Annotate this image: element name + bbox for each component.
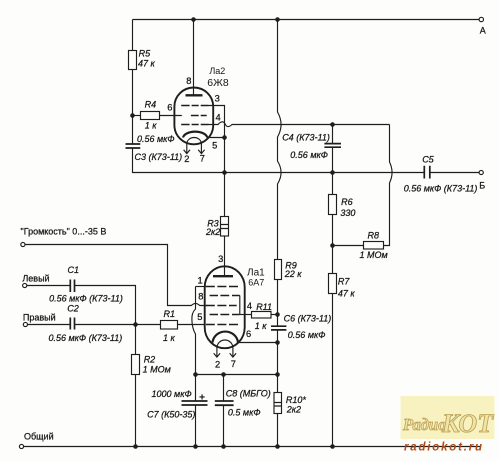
wire bottom rail xyxy=(24,446,481,448)
svg-text:C6 (К73-11): C6 (К73-11) xyxy=(284,313,332,323)
node bottom R2 xyxy=(133,444,138,449)
svg-text:C3 (К73-11): C3 (К73-11) xyxy=(135,152,183,162)
tube Ла2 envelope xyxy=(174,88,213,145)
wire R5 to R4 node xyxy=(132,70,134,145)
Ла2 pin 8 anode lead xyxy=(193,20,195,96)
svg-text:0.56 мкФ: 0.56 мкФ xyxy=(288,330,326,340)
wire R2 column xyxy=(135,325,137,447)
ground terminal xyxy=(19,444,23,448)
svg-text:R10*: R10* xyxy=(286,395,307,405)
node top rail R9 xyxy=(275,17,280,22)
svg-text:C2: C2 xyxy=(67,304,79,314)
wire R11 to node xyxy=(271,314,278,316)
svg-text:C7 (К50-35): C7 (К50-35) xyxy=(147,409,195,419)
node bottom C7 xyxy=(193,444,198,449)
node R4 junction xyxy=(130,113,135,118)
svg-text:1 МОм: 1 МОм xyxy=(360,250,388,260)
resistor R10 xyxy=(274,393,282,414)
Ла2 cathode xyxy=(183,132,207,138)
svg-text:Общий: Общий xyxy=(24,432,54,442)
capacitor C1 xyxy=(70,280,74,293)
wire B rail middle xyxy=(225,172,425,174)
Ла1 filament leads with arrows pins 2 7 xyxy=(214,348,236,357)
node input junction xyxy=(133,322,138,327)
svg-text:8: 8 xyxy=(186,76,191,86)
capacitor C6 xyxy=(271,326,286,330)
left input terminal xyxy=(23,283,27,287)
capacitor C3 xyxy=(126,144,141,148)
svg-text:330: 330 xyxy=(340,208,355,218)
svg-text:2к2: 2к2 xyxy=(205,227,220,237)
terminal B xyxy=(479,170,483,174)
node mid rail right xyxy=(275,372,280,377)
svg-text:2: 2 xyxy=(215,359,220,369)
svg-text:Левый: Левый xyxy=(22,274,49,284)
resistor R5 xyxy=(129,51,137,70)
wire R4 to tube pin 6 xyxy=(160,115,182,117)
svg-text:6: 6 xyxy=(246,329,251,339)
Ла2 filament xyxy=(187,138,202,144)
svg-text:0.56 мкФ: 0.56 мкФ xyxy=(290,150,328,160)
svg-text:1 к: 1 к xyxy=(163,333,176,343)
svg-text:47 к: 47 к xyxy=(338,288,356,298)
svg-text:3: 3 xyxy=(215,93,220,103)
svg-text:Ла2: Ла2 xyxy=(209,66,225,76)
wire R3 to Ла1 anode xyxy=(224,236,226,276)
resistor R4 xyxy=(141,112,160,120)
node cathode junction xyxy=(275,340,280,345)
right input terminal xyxy=(23,322,27,326)
svg-text:3: 3 xyxy=(218,254,223,264)
Ла1 grid row 5 xyxy=(206,324,238,326)
svg-text:R6: R6 xyxy=(341,197,353,207)
Ла2 pin 3 lead xyxy=(209,106,225,138)
Ла2 grid row 2 xyxy=(191,115,207,117)
svg-text:7: 7 xyxy=(200,154,205,164)
wire C6 to cathode node xyxy=(277,330,279,375)
Ла1 filament xyxy=(217,340,233,348)
tube Ла1 envelope xyxy=(205,266,245,348)
Ла2 pin 5 cathode lead xyxy=(207,137,224,139)
svg-text:1 к: 1 к xyxy=(145,120,158,130)
Ла2 grid row 1 xyxy=(181,105,208,107)
svg-text:8: 8 xyxy=(198,292,203,302)
wire R1 to tube pin 5 xyxy=(178,324,206,326)
node on B rail xyxy=(222,170,227,175)
volume input terminal xyxy=(21,242,25,246)
node C4 top xyxy=(330,122,335,127)
wire node to R8 xyxy=(333,245,364,247)
Ла1 grid rows 2-4 internal tie xyxy=(239,296,241,315)
wire R4 input xyxy=(133,115,141,117)
Ла1 pin 1 lead xyxy=(196,286,206,288)
Ла1 cathode xyxy=(213,332,239,343)
wire R6 to node xyxy=(332,215,334,274)
svg-text:1 к: 1 к xyxy=(255,321,268,331)
node R6 R7 R8 xyxy=(330,243,335,248)
resistor R3 xyxy=(221,217,229,237)
Ла1 grid row 3 xyxy=(206,305,237,307)
svg-text:R1: R1 xyxy=(164,309,176,319)
wire right to C2 xyxy=(28,324,71,326)
wire C7 column xyxy=(195,375,197,447)
svg-text:"Громкость" 0...-35 В: "Громкость" 0...-35 В xyxy=(21,227,107,237)
wire volume to grid 3 with hop xyxy=(25,245,208,306)
svg-text:47 к: 47 к xyxy=(138,59,156,69)
resistor R11 xyxy=(252,312,272,319)
capacitor C4 xyxy=(324,144,341,148)
svg-text:radiokot.ru: radiokot.ru xyxy=(404,442,484,454)
svg-text:22 к: 22 к xyxy=(284,269,303,279)
svg-text:6Ж8: 6Ж8 xyxy=(207,77,229,89)
wire R9 to node xyxy=(277,280,279,327)
resistor R9 xyxy=(275,260,282,280)
svg-text:R4: R4 xyxy=(145,99,157,109)
wire R7 to bottom rail xyxy=(332,294,334,447)
svg-text:0.56 мкФ: 0.56 мкФ xyxy=(137,134,175,144)
svg-text:R7: R7 xyxy=(338,276,350,286)
resistor R1 xyxy=(161,321,178,330)
capacitor C7 xyxy=(182,401,208,405)
svg-text:1 МОм: 1 МОм xyxy=(143,364,171,374)
svg-text:4: 4 xyxy=(216,113,221,123)
Ла1 pin 6 cathode lead xyxy=(238,342,278,344)
wire R8 up to pin4 line with hop xyxy=(384,125,393,246)
capacitor C5 xyxy=(424,166,430,179)
resistor R8 xyxy=(364,242,384,250)
node R11 C6 xyxy=(275,312,280,317)
wire C5 to terminal B xyxy=(430,172,479,174)
resistor R6 xyxy=(329,195,337,215)
node bottom R7 xyxy=(330,444,335,449)
resistor R2 xyxy=(132,355,140,375)
wire B rail to R6 xyxy=(332,173,334,195)
svg-text:Радио: Радио xyxy=(402,415,446,434)
wire mid rail xyxy=(196,374,278,376)
svg-text:C8 (МБГО): C8 (МБГО) xyxy=(226,388,271,398)
svg-text:Правый: Правый xyxy=(23,312,56,322)
terminal A xyxy=(479,17,483,21)
wire C4 top xyxy=(332,125,334,144)
svg-text:4: 4 xyxy=(247,301,252,311)
Ла1 grid row 4 xyxy=(210,314,240,316)
wire R10 column xyxy=(277,375,279,447)
svg-text:R8: R8 xyxy=(368,230,380,240)
capacitor C8 xyxy=(215,401,234,405)
Ла2 anode xyxy=(186,94,203,96)
svg-text:0.56 мкФ (К73-11): 0.56 мкФ (К73-11) xyxy=(49,333,123,343)
wire C4 bottom xyxy=(332,147,334,172)
svg-text:2: 2 xyxy=(184,154,189,164)
watermark xyxy=(401,396,495,454)
node C4 B rail xyxy=(330,170,335,175)
Ла2 filament leads with arrows pins 2 7 xyxy=(184,144,205,154)
svg-text:5: 5 xyxy=(212,141,217,151)
Ла1 grid row 2 xyxy=(210,295,240,297)
svg-text:0.5 мкФ: 0.5 мкФ xyxy=(228,407,261,417)
node bottom C8 xyxy=(221,444,226,449)
node pin3-pin5 junction xyxy=(222,135,227,140)
Ла1 pin 4 lead xyxy=(240,314,252,316)
node bottom R10 xyxy=(275,444,280,449)
svg-text:C5: C5 xyxy=(422,155,434,165)
svg-text:7: 7 xyxy=(231,359,236,369)
wire left to C1 xyxy=(27,285,71,287)
node mid rail C8 xyxy=(221,372,226,377)
wire left column top xyxy=(132,20,134,51)
svg-text:6А7: 6А7 xyxy=(248,278,264,288)
wire pin3/5 down to B rail xyxy=(224,138,226,173)
wire anode supply column with hops xyxy=(278,20,282,260)
svg-text:R2: R2 xyxy=(144,354,156,364)
wire C2 to junction xyxy=(75,324,161,326)
svg-text:0.56 мкФ (К73-11): 0.56 мкФ (К73-11) xyxy=(49,294,123,304)
resistor R7 xyxy=(329,274,337,294)
svg-text:КОТ: КОТ xyxy=(441,409,494,438)
svg-text:1000 мкФ: 1000 мкФ xyxy=(152,389,192,399)
svg-text:Б: Б xyxy=(479,181,485,191)
svg-text:0.56 мкФ (К73-11): 0.56 мкФ (К73-11) xyxy=(404,183,478,193)
svg-text:+: + xyxy=(199,392,205,404)
svg-text:6: 6 xyxy=(167,103,172,113)
Ла2 grid row 3 xyxy=(181,124,208,126)
Ла2 pin 4 lead with hop xyxy=(209,122,390,127)
capacitor C2 xyxy=(70,318,74,330)
Ла1 anode xyxy=(213,275,233,277)
node pin8 top junction xyxy=(191,17,196,22)
svg-text:5: 5 xyxy=(197,312,202,322)
svg-text:R5: R5 xyxy=(139,48,151,58)
svg-text:C1: C1 xyxy=(68,265,80,275)
svg-text:2к2: 2к2 xyxy=(286,405,301,415)
svg-text:C4 (К73-11): C4 (К73-11) xyxy=(282,133,330,143)
svg-text:А: А xyxy=(480,26,486,36)
svg-text:R11: R11 xyxy=(256,302,272,312)
svg-text:1: 1 xyxy=(198,276,203,286)
wire grounded grid bracket xyxy=(192,287,196,375)
wire C3 to B rail xyxy=(133,148,225,173)
wire top rail xyxy=(133,19,480,21)
wire C1 to junction xyxy=(75,286,136,325)
node mid rail left xyxy=(193,372,198,377)
wire C8 column xyxy=(223,375,225,447)
Ла1 grid row 1 xyxy=(206,286,238,288)
wire node to R3 xyxy=(224,173,226,217)
